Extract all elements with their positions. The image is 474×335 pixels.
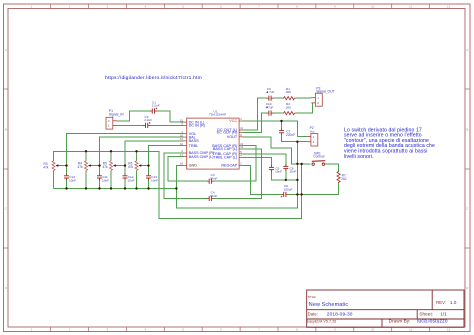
C5 body <box>269 165 274 172</box>
wire pot top rail <box>54 151 302 218</box>
junction <box>300 193 302 195</box>
C11 body <box>97 174 102 181</box>
wire C6 to ground <box>285 170 287 180</box>
wire C3 to BASS CAP (R) <box>213 146 256 182</box>
svg-text:Drawn By:: Drawn By: <box>389 319 411 324</box>
svg-text:47k: 47k <box>43 166 49 170</box>
svg-text:B: B <box>466 128 468 132</box>
C3 body <box>207 179 214 184</box>
wire wiper to C12 <box>124 166 126 176</box>
svg-text:TITLE:: TITLE: <box>307 295 316 299</box>
connector P1 Signal_IN <box>106 109 124 129</box>
junction <box>85 187 87 189</box>
svg-text:BASS CAP (L): BASS CAP (L) <box>213 147 238 151</box>
wire C9 to R1 <box>273 97 283 99</box>
svg-text:10nF: 10nF <box>151 179 158 183</box>
junction <box>147 187 149 189</box>
svg-text:A: A <box>5 48 7 52</box>
junction <box>296 193 298 195</box>
wire GND pin to rail <box>176 166 297 209</box>
svg-text:D: D <box>466 286 468 290</box>
resistor R2 200 <box>283 102 296 115</box>
wire DC OUT (R) to C10 <box>243 113 267 132</box>
wire C7 to P2.2 <box>282 134 307 142</box>
svg-text:10: 10 <box>371 328 375 332</box>
wire gnd rail <box>54 188 177 190</box>
wire pot R6 wiper <box>139 165 149 167</box>
C10 body <box>266 106 273 115</box>
svg-text:VCC: VCC <box>229 119 237 123</box>
svg-text:11: 11 <box>409 328 412 332</box>
wire TRBL to pot R6 wiper <box>149 146 184 166</box>
wire pot bottom <box>85 171 87 189</box>
svg-text:TRBL: TRBL <box>189 144 199 148</box>
junction <box>110 187 112 189</box>
svg-text:Contour: Contour <box>313 155 325 159</box>
wire switch node column <box>301 164 303 218</box>
wire VOL to pot R3 wiper <box>67 134 184 166</box>
wire rail to pot top <box>110 151 112 160</box>
wire R1 to P3.1 <box>295 97 311 99</box>
junction <box>85 150 87 152</box>
wire SW1 to R7 <box>325 164 339 171</box>
svg-text:DC IN (R): DC IN (R) <box>189 124 206 128</box>
potentiometer R3 <box>52 160 58 171</box>
capacitor C12 10nF <box>123 174 135 183</box>
svg-text:TRBL CAP (L): TRBL CAP (L) <box>213 156 238 160</box>
wire C11 to gnd rail <box>99 179 101 189</box>
wire R2 to P3.2 <box>295 103 312 113</box>
junction <box>147 164 149 166</box>
junction <box>135 150 137 152</box>
svg-text:4.7uF: 4.7uF <box>267 90 275 94</box>
svg-text:10: 10 <box>371 4 375 8</box>
wire BASS CMP (L) to C3 <box>168 157 207 182</box>
C12 body <box>123 174 128 181</box>
svg-text:TDA1524AP: TDA1524AP <box>209 113 226 117</box>
svg-text:15nF: 15nF <box>289 170 296 174</box>
wire BASS CMP (R) to C4 <box>164 153 207 199</box>
R7 body <box>337 171 340 183</box>
capacitor C6 15nF <box>283 164 296 174</box>
svg-text:B: B <box>5 128 7 132</box>
C14 body <box>64 174 69 181</box>
capacitor C13 10nF <box>146 174 158 183</box>
wire P1.2 to C1 <box>117 111 151 121</box>
capacitor C2 body <box>143 122 150 128</box>
capacitor C11 10nF <box>97 174 109 183</box>
svg-text:200: 200 <box>286 90 291 94</box>
svg-text:Signal_IN: Signal_IN <box>109 113 124 117</box>
junction <box>296 163 298 165</box>
svg-text:DC OUT (R): DC OUT (R) <box>217 131 238 135</box>
svg-text:EasyEDA V5.7.26: EasyEDA V5.7.26 <box>307 320 337 324</box>
capacitor C8 100uF <box>281 184 293 197</box>
C8 body <box>281 192 289 198</box>
wire REGCAP to C8 <box>243 166 282 195</box>
svg-text:Date:: Date: <box>308 311 318 316</box>
wire C12 to gnd rail <box>124 179 126 189</box>
svg-text:2k2: 2k2 <box>341 177 346 181</box>
junction <box>110 150 112 152</box>
capacitor C7 220nF <box>279 128 295 137</box>
wire TRBL CAP (L) to C5 <box>243 157 272 166</box>
junction <box>65 187 67 189</box>
wire pot bottom <box>110 171 112 189</box>
R2 body <box>283 112 296 115</box>
svg-text:47k: 47k <box>103 165 109 169</box>
svg-text:REV:: REV: <box>436 300 446 305</box>
junction <box>124 187 126 189</box>
capacitor C9 4.7uF <box>266 87 274 101</box>
connector P2 Vcc <box>307 126 318 146</box>
svg-text:C: C <box>5 207 7 211</box>
svg-text:BASS CMP (L): BASS CMP (L) <box>189 155 215 159</box>
wire VOUT to SW1 <box>243 137 311 164</box>
svg-text:2.2uF: 2.2uF <box>144 118 152 122</box>
capacitor C5 15nF <box>269 165 282 174</box>
junction <box>175 187 177 189</box>
wire wiper to C14 <box>66 166 68 176</box>
svg-text:1.0: 1.0 <box>450 300 457 305</box>
svg-text:47k: 47k <box>78 165 84 169</box>
wire C1 to DC IN (L) <box>156 111 184 122</box>
svg-text:REGCAP: REGCAP <box>221 164 237 168</box>
wire C8 to R7 <box>288 183 339 194</box>
svg-text:220nF: 220nF <box>286 133 295 137</box>
svg-text:Sheet:: Sheet: <box>419 311 433 316</box>
wire ground column <box>296 142 298 208</box>
svg-text:12: 12 <box>447 4 451 8</box>
svg-text:GND: GND <box>189 164 198 168</box>
wire wiper to C13 <box>148 166 150 176</box>
wire BAL to pot R4 wiper <box>100 137 184 166</box>
svg-text:D: D <box>5 286 7 290</box>
wire rail to pot top <box>85 151 87 160</box>
svg-text:10nF: 10nF <box>102 179 109 183</box>
wire P1.1 to C2 <box>117 124 144 126</box>
svg-text:Signal_OUT: Signal_OUT <box>316 90 334 94</box>
wire wiper to C11 <box>99 166 101 176</box>
C9 body <box>266 92 273 101</box>
svg-text:livelli sonori.: livelli sonori. <box>344 154 374 160</box>
svg-text:10nF: 10nF <box>69 179 76 183</box>
potentiometer R6 <box>135 160 141 171</box>
svg-text:VOUT: VOUT <box>227 135 238 139</box>
junction <box>98 187 100 189</box>
svg-text:luca.lostuzzo: luca.lostuzzo <box>417 319 448 325</box>
junction <box>98 164 100 166</box>
wire pot R3 wiper <box>56 165 67 167</box>
svg-text:47k: 47k <box>128 165 134 169</box>
title block <box>307 290 464 327</box>
capacitor C14 10nF <box>64 174 76 183</box>
svg-text:56nF: 56nF <box>210 177 217 181</box>
svg-text:56nF: 56nF <box>210 194 217 198</box>
junction <box>135 187 137 189</box>
note text <box>344 127 435 160</box>
junction <box>124 164 126 166</box>
potentiometer R4 <box>85 160 91 171</box>
svg-text:100uF: 100uF <box>284 188 293 192</box>
svg-text:11: 11 <box>409 4 412 8</box>
wire DC OUT (L) to C9 <box>243 98 267 130</box>
svg-text:A: A <box>466 48 468 52</box>
capacitor C3 56nF <box>207 173 218 184</box>
svg-text:1/1: 1/1 <box>440 311 447 316</box>
junction <box>65 164 67 166</box>
junction <box>285 179 287 181</box>
wire C14 to gnd rail <box>66 179 68 189</box>
svg-text:BASS: BASS <box>189 139 200 143</box>
svg-text:https://digilander.libero.it/n: https://digilander.libero.it/nick47/ctr1… <box>105 75 202 81</box>
svg-text:200: 200 <box>286 106 291 110</box>
svg-text:15nF: 15nF <box>275 170 282 174</box>
junction <box>296 141 298 143</box>
wire VCC to C7 <box>281 121 283 129</box>
svg-text:C: C <box>466 207 468 211</box>
wire pot bottom <box>53 171 55 189</box>
svg-text:Vcc: Vcc <box>310 129 315 133</box>
svg-text:New Schematic: New Schematic <box>309 302 349 308</box>
capacitor C4 56nF <box>207 190 218 201</box>
R1 body <box>283 97 296 100</box>
capacitor C2 2.2uF <box>143 115 152 128</box>
capacitor C1 body <box>150 108 157 114</box>
wire TRBL CAP (R) to C6 <box>243 154 286 166</box>
wire C13 to gnd rail <box>148 179 150 189</box>
svg-text:2.2uF: 2.2uF <box>152 104 160 108</box>
C7 body <box>279 128 284 135</box>
junction <box>300 163 302 165</box>
svg-text:4.7uF: 4.7uF <box>266 106 274 110</box>
potentiometer R5 <box>110 160 116 171</box>
wire BASS to pot R5 wiper <box>125 141 183 166</box>
wire pot bottom <box>136 171 138 189</box>
wire pot R4 wiper <box>89 165 100 167</box>
wire pot R5 wiper <box>114 165 126 167</box>
op-amp U1 TDA1524AP <box>180 109 244 169</box>
wire rail to pot top <box>136 151 138 160</box>
capacitor C1 2.2uF <box>150 100 160 113</box>
connector P3 Signal_OUT <box>311 86 334 106</box>
wire C4 to BASS CAP (L) <box>213 149 261 199</box>
wire C10 to R2 <box>273 112 283 114</box>
C6 body <box>283 164 288 171</box>
svg-text:10nF: 10nF <box>128 179 135 183</box>
resistor R1 200 <box>283 87 296 100</box>
wire C5 to ground <box>272 171 298 180</box>
svg-text:12: 12 <box>447 328 451 332</box>
junction <box>296 179 298 181</box>
C13 body <box>146 174 151 181</box>
resistor R7 2k2 <box>337 171 347 183</box>
junction <box>280 120 282 122</box>
capacitor C10 4.7uF <box>266 102 274 116</box>
wire VCC to P2.1 <box>243 121 307 137</box>
wire C2 to DC IN (R) <box>149 124 183 126</box>
svg-text:2018-09-30: 2018-09-30 <box>327 311 353 317</box>
C4 body <box>207 196 214 201</box>
switch SW1 Contour <box>312 152 326 166</box>
